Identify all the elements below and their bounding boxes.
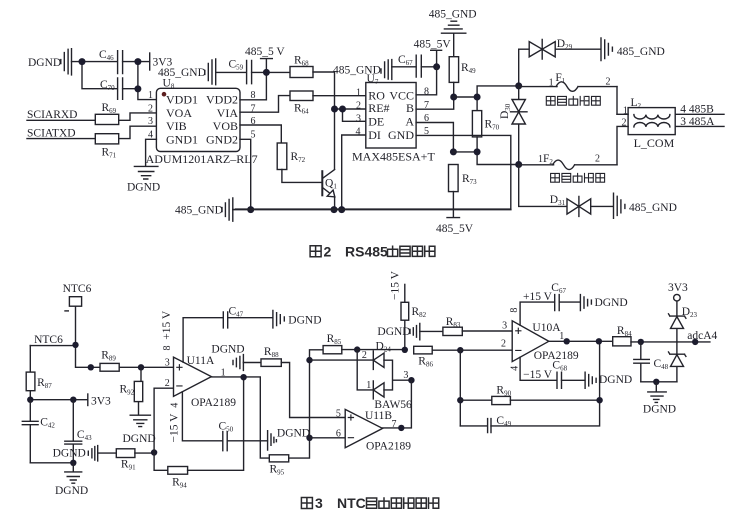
junction output stub: [564, 338, 570, 344]
svg-text:2: 2: [501, 339, 506, 350]
wire: C47 to DGND: [228, 317, 273, 319]
ground 485_GND (left of C67): [333, 60, 392, 80]
ground DGND (right of C50): [268, 427, 311, 450]
wire: U7 pin A to A-node: [416, 123, 453, 152]
junction R86/U10A pin2 node: [457, 347, 463, 353]
svg-text:−15 V: −15 V: [523, 369, 553, 381]
wire: pin2 node to U10A inverting input: [460, 349, 512, 351]
wire: C50 to DGND: [227, 440, 267, 442]
resistor R73: [449, 165, 478, 192]
label chip-fuse (F2): [551, 173, 605, 182]
wire: U8 pin 6 VOB to R72 top: [240, 125, 281, 143]
junction D24 pin2 branch: [306, 357, 312, 363]
junction C43 top node: [70, 397, 76, 403]
caption figure 3: [301, 495, 438, 511]
svg-text:5: 5: [336, 408, 341, 419]
wire: C46 right to 3V3 tap: [123, 61, 150, 63]
svg-text:DGND: DGND: [288, 314, 321, 326]
wire: U7 pin5 GND down and left along rail: [236, 135, 511, 209]
resistor R83: [443, 316, 462, 336]
wire: U11A output down to R95 row (via C50 crossing): [260, 377, 269, 458]
resistor R95: [269, 455, 288, 477]
junction D24 pin3 / U11B output: [408, 377, 414, 383]
svg-text:L_COM: L_COM: [634, 136, 675, 150]
svg-text:4: 4: [510, 366, 521, 371]
svg-text:DGND: DGND: [123, 433, 156, 445]
wire: SCIARXD to R69: [27, 119, 95, 121]
wire: R49 bottom to B-line node: [416, 82, 454, 109]
junction C48 top: [638, 339, 644, 345]
capacitor C50: [219, 421, 234, 451]
wire: C67 right to VCC node: [421, 66, 436, 68]
svg-text:3: 3: [502, 321, 507, 332]
wire: R72 bottom to Q1 base: [282, 170, 322, 183]
wire: F1 to L2 pin1: [616, 87, 618, 115]
resistor R86: [414, 346, 434, 368]
junction R87/C42 node: [27, 397, 33, 403]
svg-text:MAX485ESA+T: MAX485ESA+T: [352, 150, 435, 164]
wire: U8 pin 4 GND1 to DGND: [146, 139, 157, 166]
svg-text:DGND: DGND: [127, 182, 160, 194]
svg-text:8: 8: [509, 308, 520, 313]
svg-text:DGND: DGND: [28, 57, 61, 69]
ground DGND (left of R88): [211, 343, 244, 370]
svg-text:2: 2: [324, 243, 332, 259]
wire: N1 to D24 upper cathode: [310, 359, 374, 361]
resistor R68: [290, 55, 313, 78]
capacitor C46: [99, 49, 123, 74]
svg-text:3V3: 3V3: [91, 395, 111, 407]
svg-text:VOB: VOB: [213, 119, 238, 133]
svg-text:U10A: U10A: [532, 322, 561, 334]
wire: U8 pin 8 VDD2 to 485_5V rail: [240, 72, 266, 99]
svg-text:VDD1: VDD1: [166, 93, 198, 107]
junction R90/output column: [596, 397, 602, 403]
svg-text:7: 7: [392, 419, 397, 430]
TVS diode D30: [499, 86, 527, 165]
junction C46/3V3 node: [134, 58, 141, 65]
junction 485_5V / C59 / R68 node: [263, 69, 270, 76]
op-amp U10A: [512, 321, 579, 362]
wire: U10A output to R84: [549, 340, 613, 342]
svg-text:DGND: DGND: [53, 448, 86, 460]
svg-text:2: 2: [606, 77, 611, 88]
wire: L2 pin4 to 485B: [675, 113, 724, 115]
svg-text:3: 3: [148, 116, 153, 127]
svg-text:OPA2189: OPA2189: [366, 440, 411, 452]
wire: 485_GND to C67 left: [392, 66, 416, 68]
junction A/R73 node: [450, 148, 457, 155]
op-coupler U8 ADUM1201: [146, 78, 258, 166]
svg-text:DGND: DGND: [211, 343, 244, 355]
fuse F2: [519, 153, 617, 170]
resistor R72: [277, 143, 305, 170]
wire: C42 bottom to DGND node: [30, 462, 73, 464]
svg-text:−15 V 4: −15 V 4: [168, 403, 180, 443]
junction U11A output/R94: [240, 374, 246, 380]
wire: R94 right up to U11A output: [188, 378, 244, 471]
resistor R87: [26, 346, 52, 400]
svg-text:DGND: DGND: [55, 485, 88, 497]
junction R49/B node: [450, 94, 457, 101]
wire: D24 pin3 down to U11B output: [383, 380, 412, 428]
svg-text:DI: DI: [368, 128, 381, 142]
svg-text:485_5V: 485_5V: [414, 39, 452, 51]
ground 485_GND (bottom rail, left end): [175, 198, 233, 221]
svg-text:3V3: 3V3: [668, 282, 688, 294]
resistor R69: [95, 102, 118, 124]
wire: C59 right to 485_5V node: [252, 71, 290, 73]
power stub -15V (above R82): [390, 270, 405, 302]
capacitor C42: [22, 400, 55, 463]
wire: L2 pin3 to 485A: [675, 125, 724, 127]
wire: L2 pin1 stub: [617, 113, 628, 115]
ground DGND (right of C68): [585, 372, 632, 388]
wire: R71 to U8 pin 3: [119, 126, 157, 138]
wire: R89 right to U11A pin3: [119, 366, 173, 368]
wire: pin2 node down to R94: [154, 453, 168, 471]
svg-text:485_GND: 485_GND: [333, 65, 381, 77]
wire: DGND node to C46/C70 left plates: [72, 62, 118, 89]
svg-text:4 485B: 4 485B: [680, 104, 714, 116]
wire: R91 right to U11A pin2 node: [135, 452, 154, 454]
svg-text:OPA2189: OPA2189: [191, 397, 236, 409]
wire: R83 right to U10A pin3: [462, 330, 512, 332]
capacitor C49: [488, 415, 512, 433]
svg-text:DE: DE: [368, 114, 384, 128]
op-amp U11A: [174, 355, 237, 409]
svg-text:1: 1: [356, 88, 361, 99]
wire: 485_GND to C59 left: [216, 71, 247, 73]
svg-text:VOA: VOA: [166, 106, 192, 120]
svg-text:DGND: DGND: [377, 326, 410, 338]
junction C70/VDD1 node: [134, 85, 141, 92]
wire: DGND to R91: [98, 452, 117, 454]
svg-text:DGND: DGND: [599, 374, 632, 386]
wire: Q1 emitter to 485_GND rail: [334, 197, 336, 210]
junction RE# node: [331, 106, 338, 113]
resistor R70: [472, 111, 499, 137]
wire: U7 pin4 DI down to 485_GND rail: [342, 135, 366, 210]
power tap 485_5V (above U7 VCC): [414, 39, 452, 67]
svg-text:NTC6: NTC6: [63, 283, 92, 295]
wire: U10A V- pin4 to -15V/C68 row: [520, 357, 557, 380]
svg-text:adcA4: adcA4: [687, 330, 717, 342]
capacitor C67 (U7 decoupling): [398, 54, 421, 77]
ground DGND (top-left, 485 isolation input side): [28, 49, 72, 75]
svg-text:2: 2: [356, 101, 361, 112]
resistor R89: [100, 349, 119, 371]
svg-text:1: 1: [148, 90, 153, 101]
ground DGND (right of C67): [580, 295, 627, 311]
capacitor C43: [65, 400, 92, 463]
wire: NTC6 connector down to NTC6 net: [75, 306, 77, 345]
resistor R88: [261, 346, 281, 366]
transceiver U7 MAX485: [352, 73, 435, 164]
ground 485_GND (left of C59): [158, 59, 216, 85]
junction A-line / F2 / D31 node: [515, 161, 522, 168]
svg-text:3 485A: 3 485A: [680, 116, 715, 128]
dual clamp diode D23 (upper): [669, 306, 698, 342]
capacitor C70: [100, 78, 123, 99]
capacitor C47: [223, 305, 243, 328]
svg-text:2: 2: [595, 154, 600, 165]
svg-text:485_5 V: 485_5 V: [245, 46, 285, 58]
svg-text:485_GND: 485_GND: [617, 46, 665, 58]
svg-text:VIB: VIB: [166, 119, 187, 133]
svg-text:485_GND: 485_GND: [629, 202, 677, 214]
svg-text:GND2: GND2: [206, 132, 238, 146]
svg-text:8 +15 V: 8 +15 V: [161, 310, 173, 350]
svg-text:VIA: VIA: [217, 106, 239, 120]
op-amp U11B: [345, 409, 411, 452]
svg-text:3: 3: [403, 370, 408, 381]
junction output/feedback column: [596, 338, 602, 344]
svg-text:3: 3: [165, 357, 170, 368]
capacitor C59: [229, 59, 252, 84]
wire: U11A V+ pin8 to +15V/C47 row: [183, 318, 223, 362]
svg-text:NTC6: NTC6: [34, 334, 63, 346]
junction VCC node: [433, 63, 440, 70]
wire: C68 to DGND: [562, 379, 585, 381]
svg-text:485_GND: 485_GND: [158, 67, 206, 79]
wire: feedback column down to R90/C49: [459, 350, 461, 426]
svg-text:3: 3: [356, 114, 361, 125]
svg-text:ADUM1201ARZ–RL7: ADUM1201ARZ–RL7: [146, 152, 258, 166]
wire: R82 bottom to N2 node: [404, 320, 406, 350]
ground DGND (below C48/D23): [643, 382, 676, 416]
wire: 485_GND to R49 top: [453, 33, 455, 57]
ground 485_GND (top, above R49): [429, 9, 477, 34]
power tap 485_5V (below R73): [436, 192, 474, 236]
ground DGND (below R92): [123, 415, 156, 445]
wire: U11A output: [211, 376, 260, 378]
svg-text:3: 3: [315, 495, 323, 511]
junction DE branch: [339, 106, 346, 113]
wire: A node to R70 bottom and F2/D31 column: [453, 137, 518, 165]
wire: DGND to R83: [420, 330, 443, 332]
wire: DE branch to U7 pin3: [343, 109, 366, 121]
junction R85 right / D24 pin1: [354, 346, 360, 352]
junction C42/C43/DGND node: [70, 460, 76, 466]
svg-text:485_5V: 485_5V: [436, 223, 474, 235]
svg-text:U11B: U11B: [365, 410, 392, 422]
transistor Q1: [322, 170, 337, 197]
junction DGND stem: [653, 379, 659, 385]
wire: R68 right down to RE#/DE node and Q1 collector: [313, 72, 335, 169]
svg-text:1: 1: [366, 380, 371, 391]
svg-text:RE#: RE#: [368, 101, 389, 115]
wire: R84 right to adcA4: [631, 341, 710, 343]
wire: U10A V+ pin8 to +15V/C67 row: [520, 302, 554, 325]
wire: pin2 node up to U11A inverting input: [154, 388, 173, 452]
junction: pin5 on 485_GND rail: [247, 206, 254, 213]
wire: L2 pin2 stub: [617, 126, 628, 164]
junction R92 top node: [138, 364, 144, 370]
svg-text:1: 1: [549, 78, 554, 89]
svg-text:A: A: [405, 114, 414, 128]
wire: 485_GND bottom rail: [233, 209, 511, 211]
wire: VCC node to U7 pin8: [416, 67, 437, 95]
wire: R95 right up to U11B pin6 node: [289, 438, 310, 458]
wire: C49 row: [460, 425, 487, 427]
wire: B node across to R70 top and D29/F1 column: [454, 86, 519, 111]
svg-text:U11A: U11A: [187, 355, 215, 367]
junction U11B output: [398, 425, 404, 431]
svg-text:6: 6: [336, 428, 341, 439]
capacitor C48: [634, 342, 669, 382]
svg-text:DGND: DGND: [643, 404, 676, 416]
wire: U8 pin 5 GND2 down to 485_GND rail: [240, 139, 251, 209]
wire: R86 right to U10A pin2 node: [432, 349, 460, 351]
svg-text:1: 1: [623, 105, 628, 116]
svg-text:2: 2: [622, 118, 627, 129]
power tap 3V3: [150, 53, 173, 70]
wire: R88 right to U11B pin5: [281, 363, 345, 418]
wire: pin6 node to U11B inverting input: [310, 437, 346, 439]
svg-text:SCIARXD: SCIARXD: [27, 109, 77, 121]
resistor R82: [401, 302, 427, 320]
svg-text:+15 V: +15 V: [523, 291, 553, 303]
capacitor C67 (U10A decoupling): [551, 282, 566, 311]
resistor R92: [120, 367, 143, 415]
resistor R64: [290, 91, 313, 116]
wire: N1 vertical (R85 left / D24-2 / pin6): [310, 350, 324, 438]
svg-text:2: 2: [148, 103, 153, 114]
junction R70 top node: [474, 94, 481, 101]
resistor R91: [116, 449, 136, 472]
TVS diode D31: [519, 165, 614, 217]
svg-text:GND1: GND1: [166, 132, 198, 146]
svg-text:−15 V: −15 V: [390, 270, 402, 300]
junction at DGND branch: [79, 58, 86, 65]
wire: RE# node to U7 pin2: [335, 108, 366, 110]
fuse F1: [519, 72, 617, 91]
junction R70 bottom node: [474, 148, 481, 155]
wire: DGND to R88: [243, 362, 261, 364]
resistor R94: [168, 467, 188, 490]
power tap 3V3 (NTC bias): [88, 394, 111, 407]
wire: U8 pin 7 VIA to R64: [240, 96, 290, 113]
wire: C70 right to VDD1 node: [123, 62, 157, 100]
svg-text:B: B: [406, 101, 414, 115]
junction R90 left node: [457, 397, 463, 403]
common-mode choke L2: [628, 97, 675, 150]
ground DGND (below C43): [55, 463, 88, 497]
junction: DI on 485_GND rail: [338, 206, 345, 213]
svg-text:RS485: RS485: [345, 243, 388, 259]
junction U11A pin2 feedback node: [151, 449, 157, 455]
junction NTC6 node: [72, 342, 78, 348]
wire: C49 right up to output column: [491, 341, 600, 426]
wire: R90 right to U10A output column: [510, 399, 599, 401]
resistor R84: [613, 325, 632, 346]
svg-text:GND: GND: [388, 128, 414, 142]
svg-text:2: 2: [165, 378, 170, 389]
junction: Q1 emitter on rail: [331, 206, 338, 213]
resistor R90: [492, 385, 512, 405]
wire: D24 pin1 branch down to lower cathode: [357, 350, 373, 390]
dual diode D24 BAW56: [373, 340, 412, 411]
resistor R71: [95, 134, 118, 160]
svg-text:VDD2: VDD2: [206, 93, 238, 107]
ground 485_GND (right of D29): [601, 38, 665, 61]
wire: NTC6 net horizontal: [30, 345, 100, 367]
junction R89 left: [88, 364, 94, 370]
svg-text:1: 1: [559, 331, 564, 342]
caption figure 2: [310, 243, 435, 259]
capacitor C68: [552, 359, 567, 388]
power terminal 3V3 (above D23): [668, 282, 688, 316]
svg-text:DGND: DGND: [595, 297, 628, 309]
wire: R64 right to U7 pin1 RO: [313, 95, 366, 97]
svg-text:DGND: DGND: [277, 427, 310, 439]
junction R82/R86/N2: [402, 347, 408, 353]
wire: C67 to DGND: [559, 301, 580, 303]
dual clamp diode D23 (lower): [669, 342, 686, 382]
ground DGND (left of R83): [377, 324, 419, 340]
connector NTC6: [63, 283, 92, 311]
svg-text:485_GND: 485_GND: [175, 204, 223, 216]
wire: R87 bottom / 3V3 row: [30, 399, 88, 401]
wire: C48/D23 bottom rail: [641, 381, 677, 383]
ground DGND (left of R91): [53, 446, 98, 461]
wire: R85 right to N2 node: [342, 349, 357, 351]
wire: U11A V- pin4 to -15V/C50 row: [182, 392, 222, 441]
TVS diode D29: [519, 38, 601, 86]
power tap 485_5 V (above U8 pin8 node): [245, 46, 285, 72]
svg-text:8: 8: [424, 87, 429, 98]
ground 485_GND (right of D31): [614, 193, 677, 218]
junction D29/F1 node: [515, 82, 522, 89]
wire: SCIATXD to R71: [27, 138, 95, 140]
wire: R90 row: [460, 399, 492, 401]
svg-text:4: 4: [356, 127, 361, 138]
resistor R49: [449, 57, 476, 83]
svg-text:SCIATXD: SCIATXD: [27, 127, 76, 139]
ground DGND (under U8 pin 4): [127, 166, 160, 193]
junction U11B pin6 node: [306, 435, 312, 441]
svg-text:2: 2: [362, 350, 367, 361]
wire: R69 to U8 pin 2: [119, 113, 157, 120]
junction adcA4 node: [692, 339, 698, 345]
wire: N2 across to R82/R86 node: [357, 349, 405, 351]
svg-text:NTC: NTC: [337, 495, 366, 511]
svg-text:485_GND: 485_GND: [429, 9, 477, 21]
label chip-fuse (F1): [546, 96, 600, 105]
ground DGND (right of C47): [273, 310, 322, 328]
resistor R85: [323, 333, 342, 354]
